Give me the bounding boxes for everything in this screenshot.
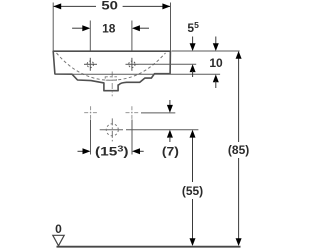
right extension line rim top: [172, 50, 240, 52]
dimension 15.3 arrows: [78, 148, 144, 154]
svg-text:55: 55: [187, 20, 199, 35]
dimension 7 arrows: [167, 100, 173, 142]
svg-text:(153): (153): [95, 144, 129, 159]
right extension line basin bottom: [55, 73, 220, 75]
svg-text:10: 10: [209, 56, 223, 70]
svg-text:(55): (55): [182, 184, 203, 198]
drain slot dashed rectangle: [105, 77, 116, 80]
dimension 5.5 arrows: [190, 37, 196, 78]
mounting hole right: [126, 106, 139, 119]
svg-text:50: 50: [101, 0, 118, 12]
svg-text:(7): (7): [162, 145, 179, 159]
faucet hole left: [84, 58, 97, 71]
washbasin outline: [53, 51, 170, 90]
mounting hole left: [84, 106, 97, 119]
dimension 50 extension lines: [53, 3, 170, 51]
dimension 50 line: [53, 3, 170, 9]
right extension line faucet level: [139, 63, 197, 65]
ground level triangle: [53, 235, 64, 246]
bowl inner dashed curve: [57, 53, 166, 80]
ground line: [57, 246, 241, 248]
faucet hole right: [126, 58, 139, 71]
drain hole circle: [100, 118, 123, 141]
mounting holes extension line right: [141, 112, 175, 114]
dimension 55 vertical line: [190, 130, 196, 246]
dimension 10 arrows: [213, 37, 219, 89]
dimension 15.3 extension lines: [91, 120, 133, 155]
svg-text:(85): (85): [228, 143, 249, 157]
svg-text:18: 18: [102, 21, 116, 35]
dimension 85 vertical line: [236, 51, 242, 246]
drain level extension line: [126, 129, 198, 131]
center axis line: [111, 72, 113, 97]
dimension 18 arrows: [72, 25, 149, 31]
dimension 18 extension lines: [90, 21, 132, 58]
svg-text:0: 0: [55, 222, 62, 236]
